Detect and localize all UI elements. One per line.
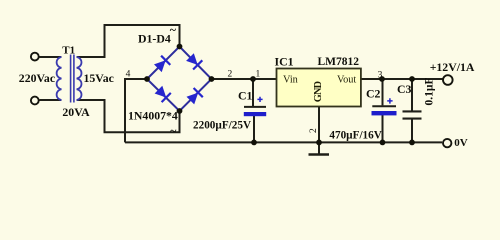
svg-text:Vout: Vout <box>337 75 356 86</box>
svg-text:2200µF/25V: 2200µF/25V <box>193 120 251 132</box>
svg-text:+12V/1A: +12V/1A <box>430 60 475 74</box>
svg-text:15Vac: 15Vac <box>84 71 114 85</box>
svg-text:2: 2 <box>228 70 233 80</box>
svg-text:~: ~ <box>170 123 177 137</box>
svg-text:C2: C2 <box>366 87 381 101</box>
svg-text:GND: GND <box>313 81 324 102</box>
svg-text:220Vac: 220Vac <box>19 71 55 85</box>
svg-text:3: 3 <box>378 71 383 81</box>
svg-text:T1: T1 <box>62 45 75 57</box>
svg-text:1: 1 <box>256 70 261 80</box>
svg-text:4: 4 <box>126 69 131 79</box>
svg-text:LM7812: LM7812 <box>318 56 360 68</box>
svg-text:2: 2 <box>309 128 319 133</box>
svg-text:D1-D4: D1-D4 <box>138 31 171 45</box>
svg-text:C1: C1 <box>238 88 253 102</box>
svg-text:~: ~ <box>170 22 177 36</box>
svg-text:0V: 0V <box>454 137 468 149</box>
svg-text:0.1µF: 0.1µF <box>423 77 435 105</box>
svg-text:20VA: 20VA <box>62 105 90 119</box>
svg-text:IC1: IC1 <box>275 54 294 68</box>
svg-text:1N4007*4: 1N4007*4 <box>128 109 178 123</box>
svg-text:C3: C3 <box>397 82 412 96</box>
svg-text:Vin: Vin <box>283 75 298 86</box>
svg-text:470µF/16V: 470µF/16V <box>329 130 381 142</box>
